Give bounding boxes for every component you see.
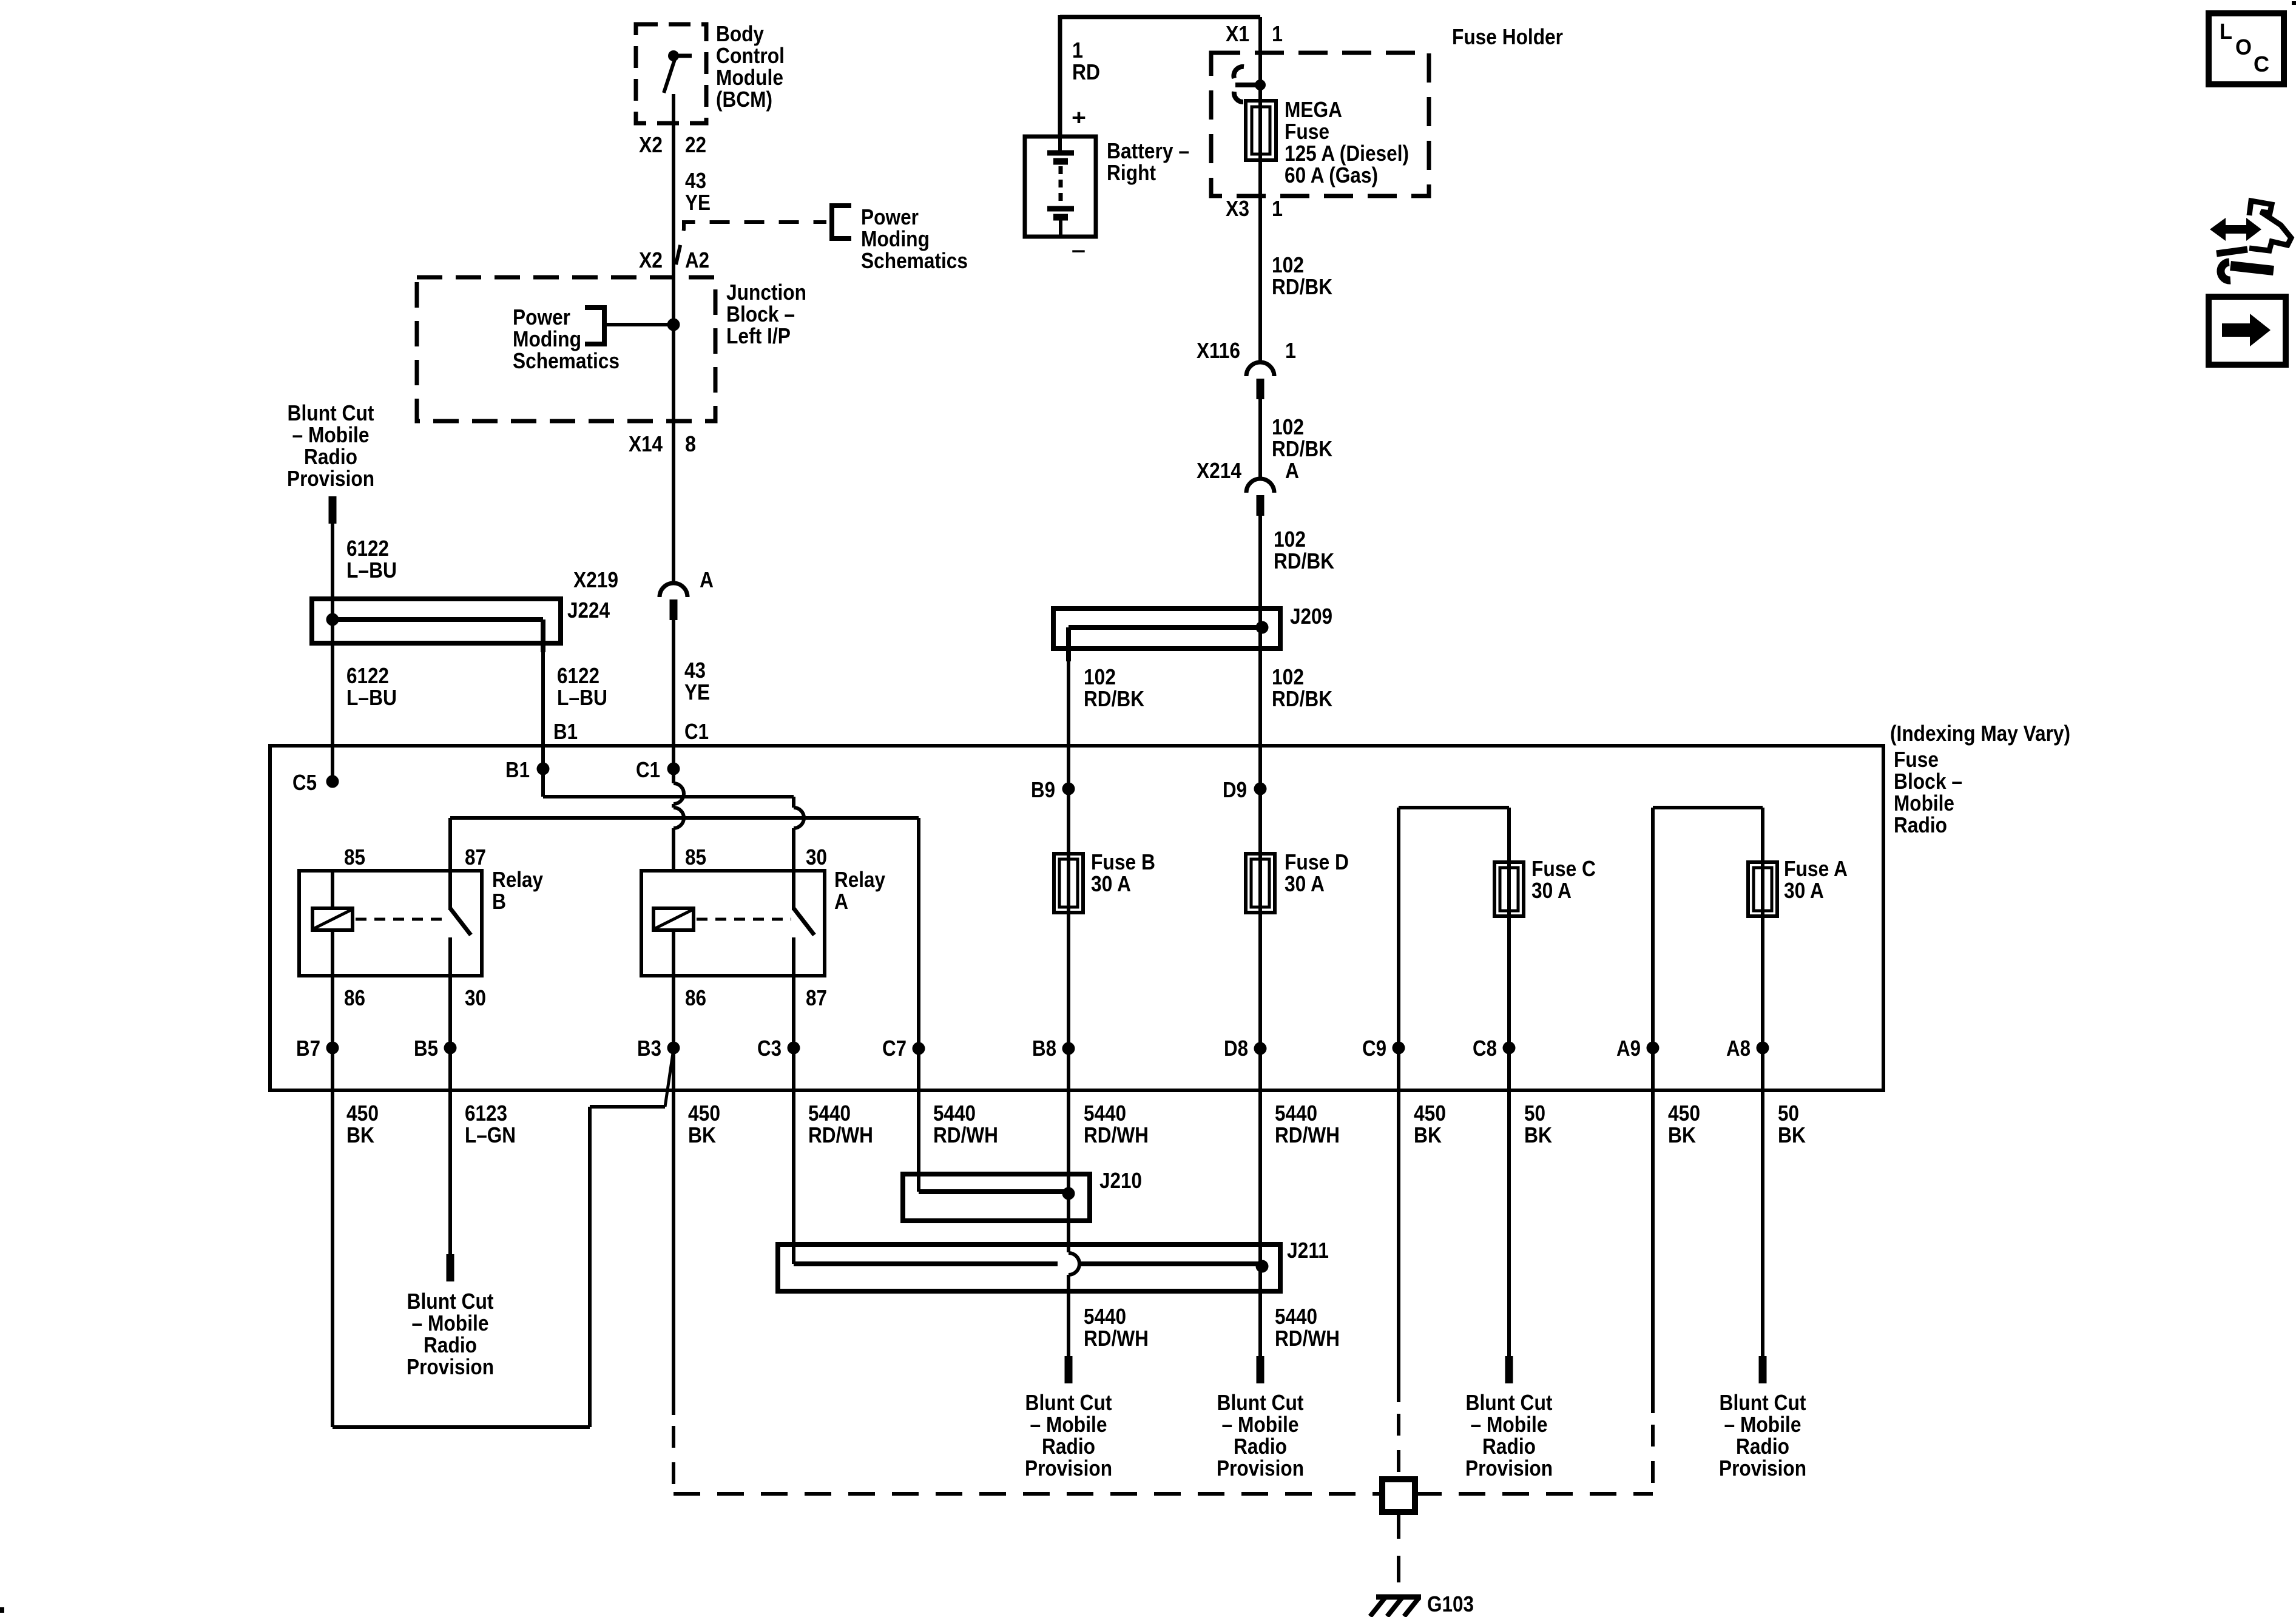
svg-text:X2: X2 — [639, 132, 663, 157]
Fuse Block - Mobile Radio outline — [270, 746, 1883, 1090]
node J210 junction — [1062, 1187, 1075, 1200]
wire label 102 RD/BK #1 — [1272, 252, 1332, 299]
svg-text:30: 30 — [465, 985, 486, 1010]
svg-text:Blunt Cut: Blunt Cut — [1720, 1390, 1806, 1415]
svg-text:J210: J210 — [1099, 1168, 1142, 1193]
label G103 — [1427, 1592, 1474, 1616]
label Blunt Cut (D8) — [1217, 1390, 1304, 1480]
wire B1 to relay A pin30 — [543, 769, 794, 797]
wire bracket to junction node — [604, 323, 674, 326]
svg-text:BK: BK — [1524, 1122, 1552, 1147]
svg-text:1: 1 — [1072, 38, 1083, 62]
label Power Moding Schematics (inside junction block) — [513, 305, 620, 373]
label Relay A — [834, 867, 885, 914]
wire label 5440 RD/WH (B8) — [1084, 1101, 1149, 1147]
label MEGA fuse — [1285, 97, 1409, 187]
wire D8 to blunt cut — [1257, 1092, 1264, 1383]
svg-text:5440: 5440 — [808, 1101, 851, 1126]
wire label 6122 L-BU lower right — [557, 663, 607, 710]
svg-text:Body: Body — [716, 21, 764, 46]
node J224 junction — [326, 613, 339, 626]
svg-text:30 A: 30 A — [1285, 871, 1325, 896]
wire fuse A to A8 — [1761, 916, 1764, 1092]
svg-text:L–BU: L–BU — [346, 558, 397, 582]
svg-text:1: 1 — [1272, 196, 1283, 221]
svg-text:L–GN: L–GN — [465, 1122, 516, 1147]
wire label 43 YE upper — [685, 168, 711, 215]
svg-text:Junction: Junction — [726, 280, 806, 305]
svg-text:Blunt Cut: Blunt Cut — [1217, 1390, 1304, 1415]
wire label 102 RD/BK #2 — [1272, 414, 1332, 461]
svg-text:BK: BK — [1778, 1122, 1806, 1147]
label Fuse Holder — [1452, 24, 1563, 49]
fuse B — [1054, 854, 1083, 913]
svg-text:– Mobile: – Mobile — [292, 422, 370, 447]
svg-text:Radio: Radio — [304, 444, 357, 469]
wire battery to X1 (top) — [1060, 15, 1260, 138]
wire label 50 BK (A8) — [1778, 1101, 1806, 1147]
svg-text:C7: C7 — [882, 1036, 907, 1061]
svg-text:5440: 5440 — [1275, 1304, 1317, 1329]
node C7 — [882, 1036, 925, 1061]
svg-text:RD/BK: RD/BK — [1272, 686, 1332, 711]
MEGA fuse — [1246, 101, 1276, 160]
connector X116 — [1246, 362, 1274, 399]
wire 450 BK B7 ground loop — [333, 1049, 674, 1427]
connector X219 — [660, 583, 687, 620]
ground G103 symbol — [1370, 1597, 1421, 1616]
svg-text:L–BU: L–BU — [346, 685, 397, 710]
svg-text:Blunt Cut: Blunt Cut — [407, 1289, 494, 1314]
svg-text:RD/WH: RD/WH — [808, 1122, 873, 1147]
svg-text:50: 50 — [1778, 1101, 1799, 1126]
label Fuse B 30 A — [1091, 849, 1155, 896]
svg-text:O: O — [2235, 35, 2252, 59]
svg-text:87: 87 — [465, 845, 486, 869]
Junction Block - Left I/P dashed box — [417, 277, 715, 421]
node J211 junction — [1256, 1260, 1269, 1273]
svg-text:C: C — [2254, 52, 2269, 76]
label J209 — [1290, 604, 1332, 629]
svg-text:BK: BK — [688, 1122, 716, 1147]
wire 450 BK B3 to ground (solid then dashed) — [672, 1092, 675, 1494]
pin label C1 above block — [684, 719, 709, 744]
wire J209 to B9 fuse B — [1067, 661, 1070, 916]
svg-text:Fuse: Fuse — [1894, 747, 1939, 772]
svg-text:102: 102 — [1272, 664, 1304, 689]
svg-text:BK: BK — [346, 1122, 374, 1147]
wire relay B 86 to B7 — [331, 976, 334, 1092]
fuse holder clip symbol — [1234, 67, 1266, 102]
label J224 — [567, 598, 610, 623]
battery minus sign — [1072, 237, 1086, 262]
svg-text:– Mobile: – Mobile — [1222, 1412, 1299, 1437]
svg-text:C1: C1 — [684, 719, 709, 744]
wire B8 through J210/J211 to blunt cut — [1065, 1092, 1080, 1383]
relay B pin labels — [344, 845, 486, 1010]
svg-text:Schematics: Schematics — [861, 248, 968, 273]
label Blunt Cut (C8) — [1465, 1390, 1553, 1480]
svg-text:Mobile: Mobile — [1894, 791, 1954, 815]
svg-text:C8: C8 — [1473, 1036, 1497, 1061]
svg-text:RD/BK: RD/BK — [1084, 686, 1144, 711]
svg-text:L–BU: L–BU — [557, 685, 607, 710]
label Fuse A 30 A — [1784, 856, 1848, 903]
wire 450 BK A9 to ground — [1651, 1092, 1655, 1494]
label Fuse Block - Mobile Radio — [1894, 747, 1962, 837]
svg-text:X14: X14 — [629, 431, 663, 456]
wire A9-A8 loop top — [1653, 808, 1763, 1092]
svg-text:A9: A9 — [1616, 1036, 1641, 1061]
wire 50 BK C8 to blunt cut — [1505, 1092, 1513, 1383]
svg-text:C9: C9 — [1362, 1036, 1386, 1061]
pin labels X14 8 — [629, 431, 696, 456]
svg-text:6122: 6122 — [557, 663, 599, 688]
svg-text:Fuse B: Fuse B — [1091, 849, 1155, 874]
svg-text:D9: D9 — [1223, 777, 1247, 802]
label Relay B — [492, 867, 543, 914]
svg-text:RD/BK: RD/BK — [1274, 549, 1334, 573]
node C5 — [292, 770, 339, 795]
wire label 450 BK (C9) — [1414, 1101, 1446, 1147]
svg-text:–: – — [1072, 237, 1086, 262]
wire hop relay A pin30 lead — [794, 797, 804, 871]
svg-text:6122: 6122 — [346, 663, 389, 688]
svg-text:Provision: Provision — [1465, 1456, 1553, 1480]
svg-text:86: 86 — [685, 985, 706, 1010]
svg-text:RD/WH: RD/WH — [1275, 1326, 1340, 1351]
node C9 — [1362, 1036, 1405, 1061]
wire fuse D to D8 — [1258, 913, 1262, 1092]
wire label 5440 RD/WH (D8 lower) — [1275, 1304, 1340, 1351]
splice J211 — [778, 1244, 1280, 1291]
svg-text:RD/WH: RD/WH — [933, 1122, 998, 1147]
relay A box — [641, 871, 825, 976]
svg-text:1: 1 — [1272, 21, 1283, 46]
svg-text:X1: X1 — [1226, 21, 1249, 46]
icon LOC box — [2209, 13, 2284, 84]
battery cell plates — [1047, 137, 1074, 235]
svg-text:D8: D8 — [1224, 1036, 1248, 1061]
labels X219 A — [573, 567, 714, 592]
svg-text:BK: BK — [1668, 1122, 1696, 1147]
BCM label — [716, 21, 785, 112]
svg-text:Relay: Relay — [492, 867, 543, 892]
svg-text:102: 102 — [1272, 414, 1304, 439]
pin labels X2 22 — [639, 132, 706, 157]
svg-text:X214: X214 — [1197, 458, 1241, 483]
wire label 102 RD/BK #3 — [1274, 527, 1334, 573]
wire C1 to relay A pin85 (with hops) — [674, 769, 684, 871]
svg-text:Blunt Cut: Blunt Cut — [288, 400, 374, 425]
wire label 50 BK (C8) — [1524, 1101, 1552, 1147]
svg-text:Fuse D: Fuse D — [1285, 849, 1349, 874]
wire 43 YE X219 to fuse block C1 — [672, 620, 675, 769]
wire C7 down — [917, 818, 920, 1092]
relay B link dashed — [356, 918, 448, 921]
relay B coil — [312, 871, 353, 976]
splice J210 — [903, 1174, 1090, 1221]
svg-text:5440: 5440 — [933, 1101, 976, 1126]
svg-text:J211: J211 — [1287, 1238, 1329, 1263]
connector X214 — [1246, 479, 1274, 516]
node A8 — [1726, 1036, 1769, 1061]
wire label 43 YE lower — [684, 658, 710, 704]
wire 6122 L-BU J224 to B1 — [541, 652, 545, 769]
label Fuse C 30 A — [1531, 856, 1596, 903]
label J210 — [1099, 1168, 1142, 1193]
battery plus sign — [1072, 105, 1086, 130]
svg-text:Radio: Radio — [1234, 1434, 1287, 1459]
svg-text:102: 102 — [1272, 252, 1304, 277]
svg-text:L: L — [2220, 19, 2232, 44]
pin label B1 above block — [553, 719, 578, 744]
node D8 — [1224, 1036, 1267, 1061]
svg-text:Control: Control — [716, 43, 785, 68]
J211 internal bus — [794, 1261, 1262, 1266]
svg-text:YE: YE — [684, 680, 710, 704]
svg-text:Radio: Radio — [1736, 1434, 1789, 1459]
svg-text:(BCM): (BCM) — [716, 87, 772, 112]
svg-text:RD/WH: RD/WH — [1275, 1122, 1340, 1147]
svg-text:Block –: Block – — [1894, 769, 1962, 794]
wire relay A 87 to C3 — [792, 976, 795, 1092]
svg-text:J209: J209 — [1290, 604, 1332, 629]
svg-text:30 A: 30 A — [1091, 871, 1131, 896]
blunt cut terminal (left top) — [329, 496, 337, 524]
svg-text:450: 450 — [688, 1101, 720, 1126]
wire fuse C to C8 — [1507, 916, 1511, 1092]
wire label 6123 L-GN — [465, 1101, 516, 1147]
wire relay B 30 to B5 — [448, 976, 452, 1092]
svg-text:C3: C3 — [757, 1036, 782, 1061]
svg-text:MEGA: MEGA — [1285, 97, 1342, 122]
relay B box — [299, 871, 482, 976]
svg-text:450: 450 — [1668, 1101, 1700, 1126]
svg-text:125 A (Diesel): 125 A (Diesel) — [1285, 141, 1409, 166]
label Blunt Cut (B8) — [1025, 1390, 1112, 1480]
label Power Moding Schematics (right) — [861, 204, 968, 273]
Body Control Module (BCM) dashed box — [636, 24, 706, 123]
wire battery feed through fuse holder — [1258, 17, 1262, 361]
node B3 — [637, 1036, 680, 1061]
wire 6123 L-GN B5 to blunt cut — [447, 1092, 454, 1281]
svg-text:Provision: Provision — [287, 466, 374, 491]
label Blunt Cut (A8) — [1719, 1390, 1806, 1480]
node C8 — [1473, 1036, 1516, 1061]
svg-text:86: 86 — [344, 985, 365, 1010]
wire label 6122 L-BU lower left — [346, 663, 397, 710]
J210 internal bus — [919, 1189, 1069, 1194]
svg-text:Schematics: Schematics — [513, 348, 620, 373]
svg-text:– Mobile: – Mobile — [412, 1311, 489, 1335]
label Blunt Cut (B5) — [407, 1289, 494, 1379]
svg-text:Right: Right — [1107, 160, 1156, 185]
wire label 5440 RD/WH (B8 lower) — [1084, 1304, 1149, 1351]
svg-text:85: 85 — [685, 845, 706, 869]
wire J209 to D9 fuse D — [1258, 649, 1262, 916]
relay A switch — [794, 871, 814, 976]
relay A coil — [653, 908, 694, 976]
svg-text:A: A — [1285, 458, 1299, 483]
svg-text:Radio: Radio — [1042, 1434, 1095, 1459]
svg-text:6123: 6123 — [465, 1101, 507, 1126]
splice J224 — [312, 599, 561, 643]
wire 102 RD/BK X214 to J209 — [1258, 516, 1262, 789]
svg-text:B3: B3 — [637, 1036, 661, 1061]
svg-text:43: 43 — [684, 658, 706, 683]
pin labels X2 A2 — [639, 248, 709, 272]
svg-text:A: A — [700, 567, 714, 592]
wire label 5440 RD/WH (D8) — [1275, 1101, 1340, 1147]
J209 internal bus — [1069, 627, 1262, 661]
svg-text:Radio: Radio — [1894, 812, 1947, 837]
svg-text:J224: J224 — [567, 598, 610, 623]
svg-text:85: 85 — [344, 845, 365, 869]
wire 50 BK A8 to blunt cut — [1759, 1092, 1767, 1383]
svg-text:BK: BK — [1414, 1122, 1442, 1147]
svg-text:Block –: Block – — [726, 302, 795, 326]
svg-text:B9: B9 — [1031, 777, 1055, 802]
svg-text:B5: B5 — [414, 1036, 438, 1061]
J224 internal bus — [333, 619, 543, 652]
svg-text:C5: C5 — [292, 770, 317, 795]
label Battery - Right — [1107, 138, 1189, 185]
wire 5440 RD/WH C7 to J210 — [917, 1092, 920, 1192]
wire label 1 RD — [1072, 38, 1100, 84]
svg-text:Provision: Provision — [1719, 1456, 1806, 1480]
fuse C — [1494, 862, 1524, 916]
svg-text:Provision: Provision — [1025, 1456, 1112, 1480]
svg-text:Radio: Radio — [1482, 1434, 1536, 1459]
svg-text:Fuse Holder: Fuse Holder — [1452, 24, 1563, 49]
wire 102 RD/BK X116 to X214 — [1258, 399, 1262, 478]
svg-text:50: 50 — [1524, 1101, 1545, 1126]
svg-text:YE: YE — [685, 190, 711, 215]
relay B switch — [450, 871, 471, 976]
wire label 102 RD/BK #5 (D9 leg) — [1272, 664, 1332, 711]
svg-text:Power: Power — [861, 204, 919, 229]
svg-text:450: 450 — [346, 1101, 379, 1126]
splice J209 — [1053, 609, 1280, 649]
svg-text:43: 43 — [685, 168, 706, 193]
labels X214 A — [1197, 458, 1299, 483]
svg-text:RD: RD — [1072, 59, 1100, 84]
wire relay B pin87 to C7 — [450, 818, 919, 871]
label J211 — [1287, 1238, 1329, 1263]
svg-text:Left I/P: Left I/P — [726, 323, 791, 348]
fuse A — [1748, 862, 1777, 916]
wire label 6122 L-BU upper — [346, 536, 397, 582]
node B7 — [296, 1036, 339, 1061]
svg-text:RD/BK: RD/BK — [1272, 436, 1332, 461]
svg-text:– Mobile: – Mobile — [1724, 1412, 1801, 1437]
pin labels X1 1 — [1226, 21, 1283, 46]
svg-text:G103: G103 — [1427, 1592, 1474, 1616]
bracket Power Moding Schematics (inside) — [585, 305, 606, 346]
wire 450 BK C9 to ground splice — [1397, 1092, 1400, 1479]
pin labels X3 1 — [1226, 196, 1283, 221]
svg-text:B1: B1 — [505, 757, 530, 782]
svg-text:Radio: Radio — [424, 1332, 477, 1357]
svg-text:Relay: Relay — [834, 867, 885, 892]
wire label 450 BK (B7) — [346, 1101, 379, 1147]
node B1 — [505, 757, 550, 782]
node C3 — [757, 1036, 800, 1061]
svg-text:8: 8 — [685, 431, 696, 456]
svg-text:Module: Module — [716, 65, 783, 90]
dashed ground bus — [674, 1492, 1653, 1496]
svg-text:B8: B8 — [1032, 1036, 1056, 1061]
wire label 450 BK (B3) — [688, 1101, 720, 1147]
svg-text:Moding: Moding — [861, 226, 930, 251]
svg-text:X2: X2 — [639, 248, 663, 272]
svg-text:+: + — [1072, 105, 1086, 130]
node A9 — [1616, 1036, 1660, 1061]
label Fuse D 30 A — [1285, 849, 1349, 896]
dashed wire splice to G103 — [1397, 1512, 1400, 1596]
svg-text:A: A — [834, 889, 848, 914]
node B5 — [414, 1036, 457, 1061]
svg-text:30 A: 30 A — [1531, 878, 1572, 903]
wire label 102 RD/BK #4 (B9 leg) — [1084, 664, 1144, 711]
Fuse Holder dashed box — [1211, 53, 1429, 196]
wire label 5440 RD/WH (C3) — [808, 1101, 873, 1147]
svg-text:Battery –: Battery – — [1107, 138, 1189, 163]
node junction in block — [667, 319, 680, 331]
svg-text:5440: 5440 — [1275, 1101, 1317, 1126]
svg-text:5440: 5440 — [1084, 1101, 1126, 1126]
dashed reference wire to Power Moding Schematics — [676, 222, 826, 265]
svg-text:– Mobile: – Mobile — [1030, 1412, 1107, 1437]
svg-text:22: 22 — [685, 132, 706, 157]
relay A link dashed — [697, 918, 791, 921]
svg-text:(Indexing May Vary): (Indexing May Vary) — [1890, 721, 2070, 746]
relay A pin labels — [685, 845, 827, 1010]
svg-text:A2: A2 — [685, 248, 709, 272]
svg-text:X3: X3 — [1226, 196, 1249, 221]
bracket Power Moding Schematics (right) — [830, 203, 851, 241]
wire 6122 L-BU blunt cut to C5 — [331, 522, 334, 781]
BCM internal switch — [664, 50, 692, 124]
svg-text:60 A (Gas): 60 A (Gas) — [1285, 163, 1378, 187]
svg-text:Blunt Cut: Blunt Cut — [1466, 1390, 1553, 1415]
wire C9-C8 loop top — [1399, 808, 1509, 1092]
ground splice box — [1382, 1479, 1415, 1512]
svg-text:B1: B1 — [553, 719, 578, 744]
svg-text:RD/BK: RD/BK — [1272, 274, 1332, 299]
label Blunt Cut - Mobile Radio Provision (left top) — [287, 400, 374, 491]
icon arrow box — [2209, 297, 2286, 365]
node C1 — [636, 757, 680, 782]
node B8 — [1032, 1036, 1075, 1061]
svg-text:X116: X116 — [1197, 338, 1240, 363]
svg-text:102: 102 — [1084, 664, 1116, 689]
svg-text:C1: C1 — [636, 757, 660, 782]
svg-text:5440: 5440 — [1084, 1304, 1126, 1329]
svg-text:6122: 6122 — [346, 536, 389, 561]
wire fuse B to B8 — [1067, 913, 1070, 1092]
fuse D — [1246, 854, 1275, 913]
wire label 450 BK (A9) — [1668, 1101, 1700, 1147]
svg-text:RD/WH: RD/WH — [1084, 1326, 1149, 1351]
wire 43 YE junction block to X219 — [672, 325, 675, 582]
svg-text:Provision: Provision — [407, 1354, 494, 1379]
svg-text:X219: X219 — [573, 567, 618, 592]
svg-text:B7: B7 — [296, 1036, 320, 1061]
svg-text:– Mobile: – Mobile — [1471, 1412, 1548, 1437]
svg-text:450: 450 — [1414, 1101, 1446, 1126]
